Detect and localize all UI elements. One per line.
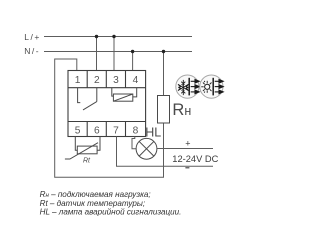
junction dot on N at Rh branch [162,50,165,53]
svg-text:2: 2 [94,75,100,86]
wire terminal 2 to L [96,37,98,71]
wire terminal 1 hook to left and down to bottom [55,59,164,177]
terminal row separators [68,87,146,89]
device body U1 [68,71,146,137]
svg-text:6: 6 [94,125,100,136]
thermistor Rt leads [75,137,77,151]
svg-text:5: 5 [75,125,81,136]
wire N/- rail [44,51,192,53]
svg-text:8: 8 [133,125,139,136]
wire terminal 8 to lamp HL [132,137,136,149]
terminal box dividers top row [86,71,88,88]
wire lamp to DC plus [157,148,213,150]
svg-text:L/+: L/+ [24,32,41,42]
lamp HL [136,138,157,159]
thermistor Rt [77,146,97,154]
internal element between pins 3-4 (rect with diagonal) [112,88,114,96]
junction dot on N at terminal 4 [131,50,134,53]
svg-text:HL – лампа аварийной сигнализа: HL – лампа аварийной сигнализации. [40,208,182,217]
svg-text:12-24V DC: 12-24V DC [172,154,218,164]
svg-text:N/-: N/- [24,46,40,56]
svg-text:+: + [185,138,190,148]
icon: heating mode (snowflake / arrows) [176,75,199,98]
icon: light mode (sun / arrows) [200,75,223,98]
resistor Rh [158,96,170,124]
junction dot on L at terminal 2 [95,35,98,38]
wire N to resistor Rh [163,52,165,96]
svg-text:4: 4 [133,75,139,86]
svg-text:Rt – датчик температуры;: Rt – датчик температуры; [40,199,146,208]
junction dot on L at terminal 3 [112,35,115,38]
svg-text:1: 1 [75,75,81,86]
DC minus label [185,167,189,169]
terminal box dividers bottom row [86,122,88,137]
svg-text:3: 3 [113,75,119,86]
svg-text:7: 7 [113,125,119,136]
wire terminal 7 to DC minus [117,137,214,167]
wire L/+ rail [44,36,192,38]
wire terminal 3 to L [113,37,115,71]
svg-text:HL: HL [145,125,161,139]
svg-text:Rн: Rн [172,101,191,119]
wire terminal 4 to N [132,52,134,71]
relay contact K1 between pins 1-2 [78,88,81,103]
svg-text:Rt: Rt [83,158,91,165]
